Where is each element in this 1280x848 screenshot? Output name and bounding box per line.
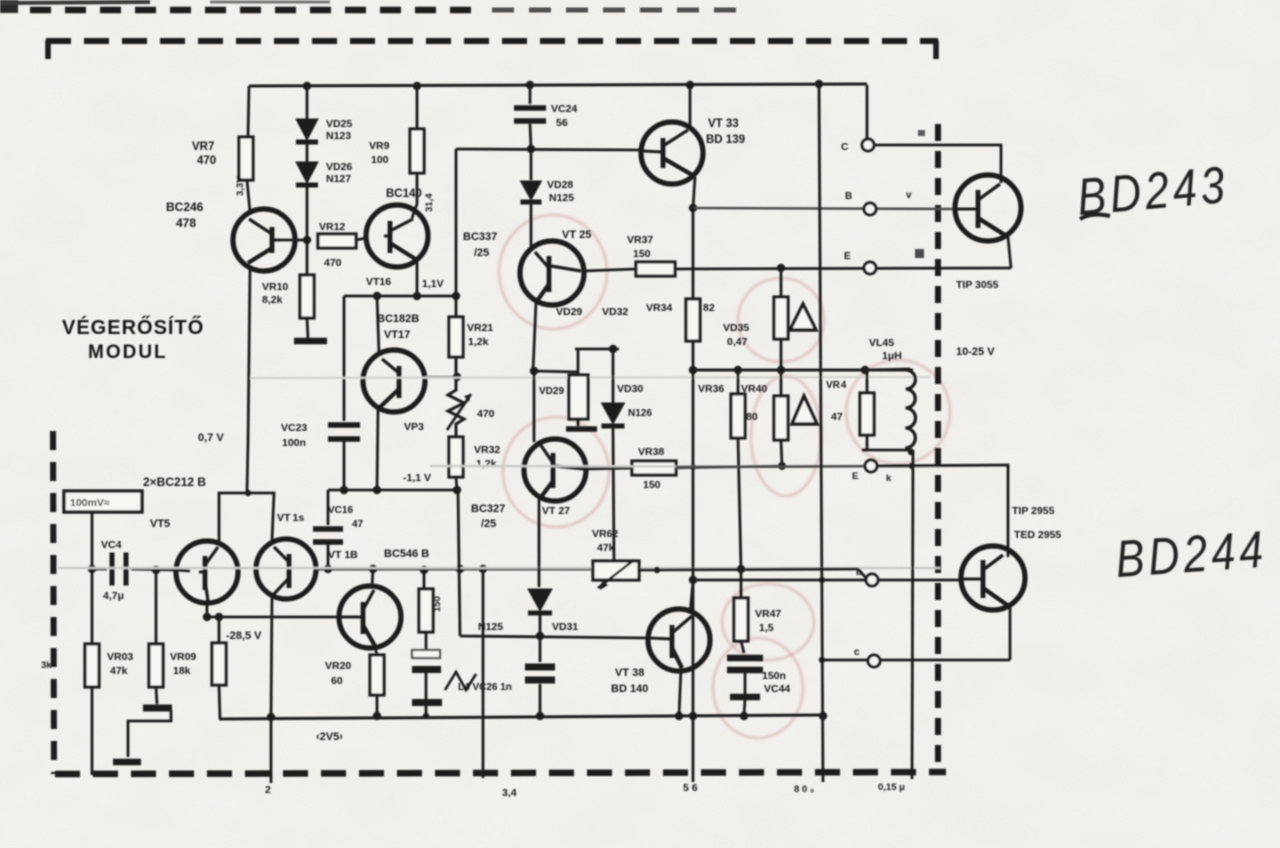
wire: VD28 to VT25 base bbox=[530, 203, 533, 250]
label 150 vertical bbox=[432, 596, 443, 612]
wire: E3 row bbox=[822, 659, 1010, 662]
wire: B row to BD243 bbox=[693, 208, 955, 209]
wire: VD31 node to VC31 cap bbox=[539, 636, 542, 662]
resistor VR9 bbox=[410, 129, 424, 173]
node dot row467/x781 bbox=[778, 462, 786, 470]
svg-text:VR7: VR7 bbox=[192, 141, 214, 153]
svg-text:VR21: VR21 bbox=[467, 322, 493, 334]
svg-text:/25: /25 bbox=[481, 518, 496, 530]
wire: VR36 down to VR47 bbox=[738, 438, 741, 569]
node dot VT5 base/shunt bbox=[152, 566, 160, 574]
wire: x819 long vertical bbox=[819, 84, 823, 782]
svg-text:82: 82 bbox=[703, 302, 715, 314]
transistor VT25 BC337 bbox=[520, 241, 584, 305]
wire: bias top link bbox=[575, 348, 619, 351]
svg-text:VT5: VT5 bbox=[150, 518, 170, 530]
node dot x913/row467 bbox=[909, 463, 915, 469]
terminal C (BD243) bbox=[862, 139, 874, 151]
trimmer VP3 bbox=[447, 357, 471, 437]
wire: x781 link bbox=[780, 268, 783, 297]
svg-text:1,1V: 1,1V bbox=[422, 278, 444, 290]
svg-text:47k: 47k bbox=[597, 542, 615, 554]
svg-text:1μH: 1μH bbox=[882, 350, 902, 362]
wire: rail down to diode chain bbox=[306, 86, 309, 119]
svg-text:VR36: VR36 bbox=[698, 383, 724, 395]
wire: bias node down to VT27 base bbox=[533, 371, 536, 442]
wire: node rail y296 bbox=[344, 295, 457, 298]
node dot after VR62 bbox=[654, 567, 660, 573]
label VT27 bbox=[542, 505, 570, 517]
wire: y296 corner down to VC23 bbox=[343, 296, 346, 421]
label VR9 100 bbox=[369, 140, 390, 166]
svg-text:100n: 100n bbox=[282, 437, 306, 449]
svg-text:VC24: VC24 bbox=[551, 103, 577, 115]
label pin 2 bbox=[265, 784, 271, 796]
wire: VR38 to output row bbox=[676, 466, 783, 468]
wire: VT15 base to feedback bbox=[316, 568, 328, 571]
svg-text:470: 470 bbox=[324, 257, 342, 269]
svg-text:VC4: VC4 bbox=[101, 539, 122, 551]
resistor VR40 bbox=[774, 396, 788, 440]
svg-text:VR 4: VR 4 bbox=[826, 380, 847, 391]
terminal B2 (BD244) bbox=[866, 574, 878, 586]
node dot outrail/coil bbox=[861, 366, 869, 374]
wire: VT5 base lead bbox=[176, 570, 190, 571]
node dot rail/VT33 bbox=[686, 81, 694, 89]
border: left dashed edge bbox=[53, 431, 54, 774]
diode VD31 bbox=[528, 589, 552, 613]
node dot fb/bias col bbox=[456, 565, 464, 573]
svg-text:150: 150 bbox=[643, 479, 661, 491]
border: top-right corner stub bbox=[933, 40, 939, 59]
capacitor VC24 bbox=[514, 108, 546, 121]
wire: VT38 emitter bbox=[679, 668, 681, 716]
label pin 3,4 bbox=[502, 787, 517, 799]
svg-text:MODUL: MODUL bbox=[88, 342, 168, 363]
label VT18 BC546B bbox=[328, 548, 429, 561]
annotation pink circle VR47 bbox=[722, 584, 814, 660]
label VR47 1,5 bbox=[755, 608, 781, 634]
resistor VR7 bbox=[239, 137, 253, 180]
box VR08 (bias) bbox=[566, 375, 597, 429]
svg-text:0,15 μ: 0,15 μ bbox=[878, 782, 905, 793]
wire: bias node to VR08 branch bbox=[534, 371, 578, 372]
svg-text:TIP 3055: TIP 3055 bbox=[956, 279, 999, 291]
svg-text:VD30: VD30 bbox=[617, 383, 643, 395]
wire: coil top bbox=[865, 369, 910, 370]
wire: VT27 collector down to VD31 bbox=[538, 498, 541, 587]
transistor VT38 BD140 bbox=[648, 609, 710, 671]
svg-text:BC182B: BC182B bbox=[377, 313, 419, 325]
svg-text:C: C bbox=[841, 142, 848, 153]
wire: rail to VR7 bbox=[248, 86, 249, 137]
svg-text:BD244: BD244 bbox=[1114, 521, 1269, 589]
terminal E3 (BD244) bbox=[868, 655, 880, 667]
svg-text:E: E bbox=[844, 251, 851, 262]
resistor VR35 bbox=[774, 297, 788, 339]
label 31,4 vertical bbox=[424, 193, 435, 212]
node dot neg/R150cap bbox=[423, 713, 429, 719]
label 33uV vertical bbox=[235, 176, 246, 196]
label VR03 47k bbox=[107, 651, 133, 677]
wire: VR47 top bbox=[740, 569, 743, 598]
label VR09 18k bbox=[170, 651, 196, 677]
wire: C2 row to BD244 collector bbox=[877, 465, 1008, 557]
label 10-25V bbox=[956, 346, 995, 358]
label b terminal bbox=[845, 191, 852, 202]
label VC23 100n bbox=[281, 422, 307, 449]
svg-text:VR10: VR10 bbox=[262, 281, 288, 293]
label VP3 470 bbox=[404, 408, 495, 433]
wire: pin2 drop bbox=[270, 717, 273, 783]
svg-text:VD29: VD29 bbox=[539, 386, 564, 397]
transistor VT5 BC212 (diff pair left) bbox=[176, 541, 238, 603]
svg-text:VD31: VD31 bbox=[552, 621, 578, 633]
label BC140 bbox=[386, 188, 422, 200]
node dot neg/VT38em bbox=[675, 712, 683, 720]
wire: pin 3,4 line bbox=[482, 569, 485, 778]
wire: y149 line down to VR21 col top bbox=[455, 149, 458, 317]
label VD25 N123 bbox=[326, 118, 352, 142]
label VR36 VR40 row bbox=[698, 383, 767, 395]
wire: base node to VR10 bbox=[306, 240, 309, 275]
node dot x819/E3row bbox=[819, 657, 825, 663]
wire: VT16 emitter down bbox=[416, 261, 419, 296]
inductor VL45 bbox=[905, 370, 915, 448]
node dot rail/diode chain bbox=[303, 82, 311, 90]
svg-text:BD 139: BD 139 bbox=[706, 134, 745, 146]
label c3 terminal bbox=[854, 647, 860, 658]
wire: VR36 branch bbox=[737, 370, 740, 394]
svg-text:VT17: VT17 bbox=[384, 329, 410, 341]
blotch small square 1 bbox=[915, 249, 924, 258]
wire: source branch down bbox=[91, 569, 94, 644]
label VD29 VD32 row bbox=[556, 306, 628, 318]
label VR12 470 bbox=[319, 221, 345, 269]
blotch small square 2 bbox=[918, 130, 925, 136]
wire: VT25 emitter to VR37 bbox=[582, 269, 636, 271]
node dot y296/VT16em bbox=[413, 292, 421, 300]
wire: VT38 collector bbox=[690, 582, 693, 614]
ground bar 2 (chassis) bbox=[113, 759, 141, 766]
border: top-left corner stub bbox=[45, 40, 51, 59]
border: bottom dashed edge bbox=[55, 772, 946, 774]
wire: VT5 collector down bbox=[206, 601, 209, 617]
wire: fb node down x460 bbox=[458, 490, 460, 636]
svg-text:8 0 ₀: 8 0 ₀ bbox=[794, 784, 814, 795]
gray scan streak y568 bbox=[58, 567, 940, 569]
transistor VT3 BC246 (input current source) bbox=[233, 209, 295, 271]
wire: VR09 to neg rail bbox=[219, 685, 220, 719]
label VC16 47 bbox=[328, 505, 364, 530]
label VR35 0,47 bbox=[723, 322, 749, 348]
svg-text:150n: 150n bbox=[762, 670, 786, 682]
wire: source down bbox=[91, 512, 94, 569]
handwritten BD244 bbox=[1114, 521, 1269, 589]
svg-text:478: 478 bbox=[176, 216, 196, 230]
ground bar (input) bbox=[143, 705, 172, 712]
wire: VC23 to y490 rail bbox=[343, 441, 346, 490]
label VR41 bbox=[826, 380, 847, 391]
label VR7 bbox=[192, 141, 216, 167]
node dot y296/VR21 column bbox=[452, 292, 460, 300]
label 4,7u bbox=[103, 590, 124, 602]
svg-text:3k: 3k bbox=[41, 660, 52, 671]
border: right dashed edge bbox=[935, 124, 941, 773]
svg-text:100: 100 bbox=[371, 154, 389, 166]
svg-text:VT 33: VT 33 bbox=[708, 118, 739, 130]
wire: cap to neg rail bbox=[425, 706, 428, 716]
label V small bbox=[906, 190, 912, 201]
node dot neg/VR20 bbox=[373, 712, 381, 720]
wire: VD30 to VR62 bbox=[613, 428, 614, 561]
capacitor VC23 bbox=[328, 425, 360, 439]
wire: VT38 base bus y636 bbox=[460, 636, 648, 638]
label VR38 150 bbox=[638, 446, 664, 491]
wire: VR40 to row467 bbox=[781, 440, 782, 466]
wire: VR40 branch bbox=[780, 370, 783, 396]
annotation pink circle VT25 bbox=[499, 215, 607, 329]
resistor VR1 (source) bbox=[85, 644, 99, 687]
svg-text:VT16: VT16 bbox=[366, 276, 391, 288]
svg-text:3,3V: 3,3V bbox=[235, 176, 246, 196]
svg-text:N125: N125 bbox=[549, 192, 574, 204]
resistor VR21 bbox=[449, 317, 463, 357]
node dot VT33em/B row bbox=[689, 204, 697, 212]
node dot bus/VD31 bbox=[536, 632, 544, 640]
wire: rail y490 bbox=[328, 489, 457, 492]
node dot y490/VC23 bbox=[340, 486, 348, 494]
svg-text:/25: /25 bbox=[474, 247, 489, 259]
wire: damping stubs bbox=[866, 370, 869, 450]
svg-text:VD35: VD35 bbox=[723, 322, 749, 334]
label VT15 bbox=[277, 512, 304, 524]
svg-text:60: 60 bbox=[331, 675, 343, 687]
svg-text:47: 47 bbox=[352, 519, 364, 530]
wire: VR34 down x693 long bbox=[692, 341, 695, 782]
node dot y296/VT17 bbox=[373, 292, 381, 300]
wire: BD243 emitter to E row bbox=[1008, 237, 1011, 268]
diode VD26 bbox=[296, 162, 318, 185]
svg-text:v: v bbox=[906, 190, 912, 201]
wire: BD244 emitter to E3 row bbox=[1009, 607, 1012, 660]
svg-text:VT 38: VT 38 bbox=[615, 667, 644, 679]
wire: VR10 to ground bbox=[307, 318, 308, 338]
wire: VT3 emitter tail down to diff pair bbox=[247, 267, 250, 491]
node dot x693/neg rail bbox=[689, 712, 697, 720]
svg-text:N125: N125 bbox=[478, 621, 503, 633]
label VT25 bbox=[562, 229, 591, 241]
wire: C row to BD243 bbox=[874, 145, 1001, 183]
wire: B2 to BD244 base bbox=[878, 579, 961, 582]
wire: VT33 emitter down bbox=[693, 177, 695, 208]
wire: rail to VC24 bbox=[529, 85, 532, 104]
node dot outrail/VR36 bbox=[734, 366, 742, 374]
label TIP2955 two lines bbox=[1012, 505, 1061, 541]
wire: VR9 to rail bbox=[416, 86, 419, 129]
node dot x693/row467 bbox=[690, 464, 696, 470]
svg-text:47: 47 bbox=[831, 411, 843, 423]
wire: VD31 to base bus bbox=[539, 614, 542, 636]
label VR37 150 bbox=[627, 234, 653, 260]
node dot fb/pin34 bbox=[479, 565, 487, 573]
svg-text:8,2k: 8,2k bbox=[262, 294, 283, 306]
top-left scan smudge bbox=[0, 0, 330, 13]
triangle mark 2 bbox=[792, 396, 817, 424]
node dot y490/VT17em bbox=[373, 486, 381, 494]
transistor VT18 BC546B bbox=[339, 586, 401, 648]
svg-text:N127: N127 bbox=[326, 173, 351, 185]
svg-text:E: E bbox=[852, 471, 858, 482]
node dot rail/VC24 bbox=[526, 81, 534, 89]
resistor VR34 bbox=[686, 299, 700, 341]
label N125 VD31 bbox=[478, 621, 578, 633]
wire: y617 down to VR09 bbox=[218, 617, 221, 643]
gray scan streak y467 bbox=[430, 466, 940, 467]
resistor VR10 bbox=[300, 275, 314, 318]
svg-text:470: 470 bbox=[477, 408, 495, 420]
node dot y617/VR9b bbox=[215, 613, 223, 621]
wire: VD25 to VD26 bbox=[306, 143, 309, 162]
wire: C row (BD243 collector) bbox=[866, 85, 869, 140]
svg-text:2: 2 bbox=[265, 784, 271, 796]
svg-text:VR38: VR38 bbox=[638, 446, 664, 458]
source box 100mV bbox=[64, 491, 142, 512]
wire: VR20 to neg rail bbox=[376, 695, 379, 717]
wire: fb bend to terminal B2 bbox=[858, 569, 867, 579]
node dot x819/neg rail bbox=[819, 712, 827, 720]
svg-text:VR47: VR47 bbox=[755, 608, 781, 620]
wire: R150 to cap bbox=[425, 632, 428, 651]
wire: +V top rail bbox=[249, 84, 867, 86]
node dot bias top/VD30 bbox=[609, 345, 617, 353]
label TIP3055 bbox=[956, 279, 999, 291]
node dot fb/VT18c bbox=[369, 565, 377, 573]
svg-text:BD 140: BD 140 bbox=[611, 683, 648, 695]
svg-text:VÉGERŐSÍTŐ: VÉGERŐSÍTŐ bbox=[62, 316, 204, 339]
svg-text:150: 150 bbox=[633, 248, 651, 260]
transistor VT27 BC327 bbox=[524, 439, 586, 501]
node dot fb/VR47 bbox=[737, 565, 745, 573]
svg-text:0,7 V: 0,7 V bbox=[198, 432, 224, 444]
label pin 5 8 bbox=[683, 782, 698, 794]
label VR62 47k bbox=[592, 528, 618, 554]
node dot neg/VT15 bbox=[267, 713, 275, 721]
label VR20 60 bbox=[325, 660, 351, 687]
transistor VT17 BC182B bbox=[363, 350, 425, 412]
label 2xBC212B bbox=[143, 475, 206, 489]
svg-text:VC23: VC23 bbox=[281, 422, 307, 434]
node dot VT5 coll bbox=[203, 613, 211, 621]
node dot rail/VR9 bbox=[413, 82, 421, 90]
svg-text:k: k bbox=[886, 473, 892, 484]
svg-text:VT 25: VT 25 bbox=[562, 229, 591, 241]
label C terminal bbox=[841, 142, 848, 153]
wire: coil bottom bbox=[862, 449, 913, 452]
transistor VT15 BC212 (diff pair right) bbox=[256, 539, 316, 599]
wire: VR32 to y490 rail bbox=[456, 477, 457, 490]
svg-text:VR34: VR34 bbox=[646, 302, 672, 314]
wire: feedback line y569 bbox=[328, 568, 593, 571]
label VD28 N125 bbox=[547, 179, 574, 204]
label 0.7V bbox=[198, 432, 224, 444]
node dot coil bottom bbox=[908, 449, 914, 455]
node dot y490/column bbox=[453, 486, 461, 494]
wire: VR08 riser bbox=[577, 349, 580, 375]
svg-text:1,5: 1,5 bbox=[759, 622, 774, 634]
wire: VC4 to VT5 base bbox=[131, 569, 176, 570]
border: module dashed box top edge bbox=[46, 38, 938, 44]
wire: VT33em to VR34 bbox=[692, 208, 695, 299]
label VT33 BD139 bbox=[706, 118, 745, 146]
node dot rail/x819 bbox=[815, 80, 823, 88]
svg-text:VD32: VD32 bbox=[602, 306, 628, 318]
wire: VT15 collector down bbox=[271, 596, 272, 717]
wire: VR12 to VT16 base bbox=[356, 238, 366, 240]
label VR34 82 bbox=[646, 302, 715, 314]
svg-text:VR12: VR12 bbox=[319, 221, 345, 233]
svg-text:1,2k: 1,2k bbox=[468, 336, 489, 348]
node dot VT25c/bias bbox=[530, 367, 538, 375]
resistor VR20 bbox=[370, 655, 384, 695]
svg-text:VR20: VR20 bbox=[325, 660, 351, 672]
annotation pink circle triangle1 bbox=[738, 278, 824, 362]
svg-text:VD25: VD25 bbox=[326, 118, 352, 130]
wire: VT18 emitter to VR20 bbox=[375, 647, 377, 655]
node dot neg/VC44 bbox=[740, 712, 748, 720]
node dot tail/bracket bbox=[245, 490, 251, 496]
label pin 0,15 bbox=[878, 782, 905, 793]
transistor BD243 (external NPN) bbox=[955, 175, 1021, 241]
terminal B (BD243) bbox=[864, 203, 876, 215]
label VD30 N126 bbox=[617, 383, 652, 419]
svg-text:56: 56 bbox=[556, 117, 568, 129]
capacitor VC31 electrolytic bbox=[525, 667, 555, 680]
svg-text:VC44: VC44 bbox=[764, 683, 790, 695]
border: outer top dashed line bbox=[30, 7, 737, 14]
svg-text:BC337: BC337 bbox=[463, 231, 497, 243]
wire: VC24 to y149 bbox=[530, 124, 531, 149]
svg-text:VD29: VD29 bbox=[556, 306, 582, 318]
transistor VT16 BC140 bbox=[366, 205, 428, 267]
svg-text:31,4: 31,4 bbox=[424, 193, 435, 212]
wire: VT27 emitter to VR38 bbox=[585, 468, 632, 469]
wire: VR7 to VT3 collector bbox=[247, 180, 250, 212]
diode VD30 bbox=[602, 403, 625, 426]
svg-text:L4 VC26 1n: L4 VC26 1n bbox=[458, 682, 512, 693]
svg-text:VR09: VR09 bbox=[170, 651, 196, 663]
wire: VR1 to bottom border bbox=[91, 687, 94, 775]
label VD26 N127 bbox=[326, 161, 352, 185]
wire: VC16 to feedback line bbox=[327, 544, 330, 569]
diode VD28 bbox=[521, 181, 542, 202]
resistor R150 bbox=[419, 589, 433, 632]
wire: VT17 emitter down bbox=[377, 409, 378, 490]
wire: VT3 base to diode node bbox=[274, 239, 307, 242]
svg-text:VR62: VR62 bbox=[592, 528, 618, 540]
label E2 terminal bbox=[852, 471, 892, 484]
triangle mark 1 bbox=[790, 304, 816, 330]
node dot x819/B2row bbox=[819, 577, 825, 583]
node dot fb/R150 bbox=[420, 566, 428, 574]
node dot VR21/VP3/VT17 base bbox=[453, 373, 461, 381]
annotation pink circle triangle2 bbox=[751, 376, 821, 496]
label VT16 bbox=[366, 276, 391, 288]
node dot y149/VC24 bbox=[527, 145, 535, 153]
svg-text:VC16: VC16 bbox=[328, 505, 353, 516]
svg-text:BC246: BC246 bbox=[166, 200, 204, 214]
svg-text:VT 1s: VT 1s bbox=[277, 512, 304, 524]
